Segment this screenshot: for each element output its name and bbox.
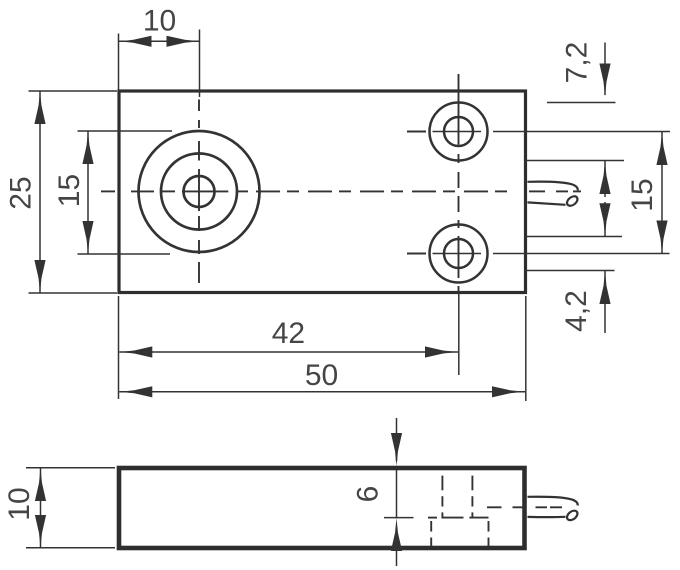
- svg-text:15: 15: [53, 174, 86, 207]
- svg-text:7,2: 7,2: [561, 42, 594, 84]
- svg-text:15: 15: [626, 178, 659, 211]
- svg-text:10: 10: [143, 4, 176, 37]
- svg-text:4,2: 4,2: [560, 290, 593, 332]
- svg-text:50: 50: [305, 359, 338, 392]
- svg-text:42: 42: [272, 317, 305, 350]
- svg-text:10: 10: [3, 487, 36, 520]
- svg-text:25: 25: [4, 176, 37, 209]
- svg-text:6: 6: [352, 486, 385, 503]
